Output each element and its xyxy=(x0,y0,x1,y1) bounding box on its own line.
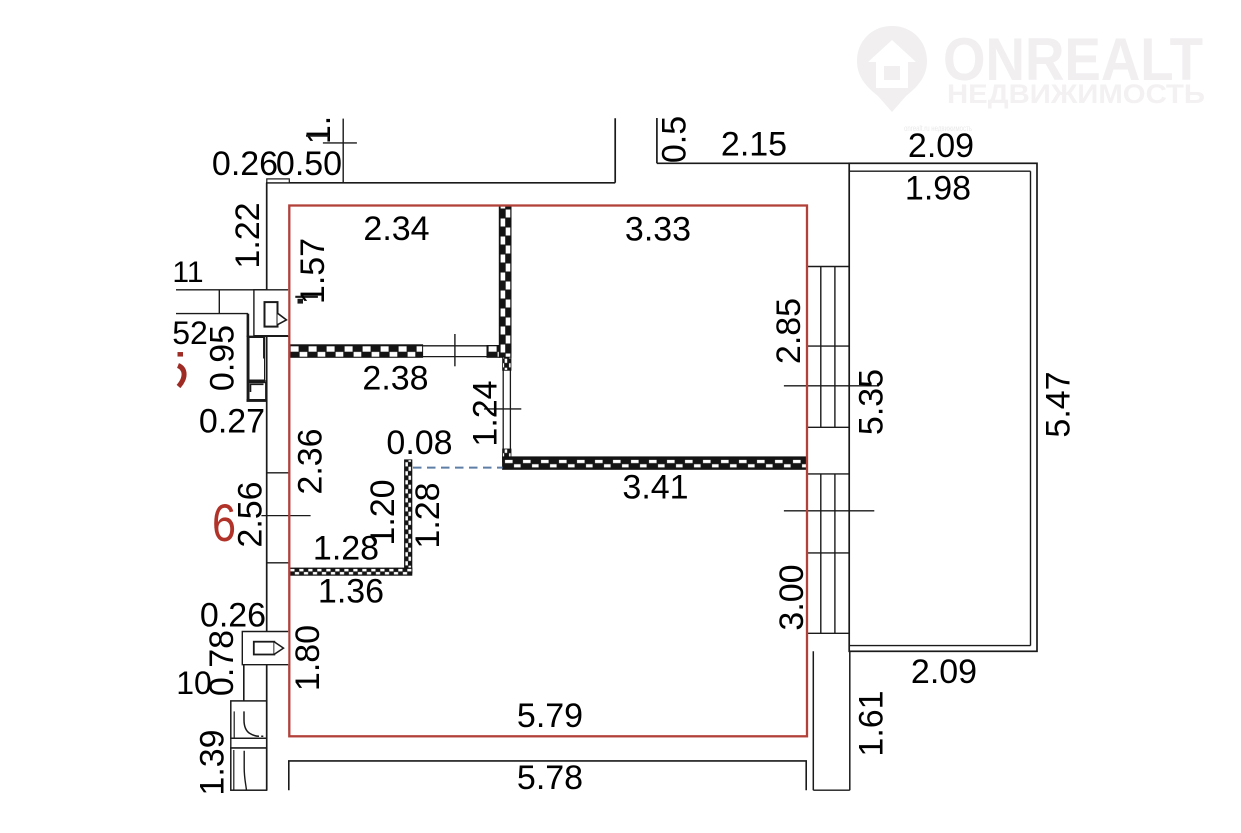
wall top horizontal y=163 xyxy=(657,162,849,164)
parapet notch top-left xyxy=(267,179,290,183)
neighbor fixture rect A xyxy=(249,337,265,380)
jamb cap bottom xyxy=(503,449,511,462)
svg-text:5.47: 5.47 xyxy=(1040,371,1078,437)
wall top-left horizontal xyxy=(266,182,615,184)
dim 1.24 rotated xyxy=(467,380,505,446)
svg-text:0.95: 0.95 xyxy=(204,325,242,391)
door bottom swing triangle xyxy=(274,642,283,654)
apartment boundary red xyxy=(289,206,807,737)
dashed blue line xyxy=(413,467,503,469)
wall 3.41 checkered xyxy=(503,457,807,469)
svg-text:11: 11 xyxy=(172,256,203,289)
svg-text:0.26: 0.26 xyxy=(212,145,278,183)
svg-text:5.78: 5.78 xyxy=(517,759,583,797)
svg-text:2.56: 2.56 xyxy=(232,481,270,547)
svg-text:2.85: 2.85 xyxy=(770,298,808,364)
dim 0.78 rotated xyxy=(203,630,241,696)
door bottom box xyxy=(242,632,288,665)
balcony outer rect xyxy=(849,163,1037,651)
neighbor fixture black band xyxy=(249,380,266,383)
balcony inner bottom xyxy=(849,645,1030,647)
red partial glyph xyxy=(178,354,185,386)
dim 5.35 rotated xyxy=(853,369,891,435)
opening jamb line right x=510.4 xyxy=(509,357,511,462)
svg-text:1.80: 1.80 xyxy=(289,625,327,691)
neighbor wall x=248 thick xyxy=(247,314,250,401)
dim 0.95 rotated xyxy=(204,325,242,391)
fixture box2 xyxy=(231,748,267,790)
svg-text:3.41: 3.41 xyxy=(622,469,688,507)
fixture box1 xyxy=(231,701,267,738)
tick dim 2.85/5.35 xyxy=(784,385,879,387)
dim 0.5 rotated xyxy=(656,116,694,163)
svg-text:0.08: 0.08 xyxy=(386,424,452,462)
dim 1.80 rotated xyxy=(289,625,327,691)
balcony inner right xyxy=(1030,171,1032,645)
wall partition 2.38 checkered xyxy=(289,345,422,358)
svg-text:1.39: 1.39 xyxy=(194,729,232,795)
svg-text:1.98: 1.98 xyxy=(905,170,971,208)
svg-text:НЕДВИЖИМОСТЬ: НЕДВИЖИМОСТЬ xyxy=(947,79,1205,109)
svg-text:2.09: 2.09 xyxy=(911,653,977,691)
window strip verticals right side xyxy=(820,267,822,428)
window2 verticals xyxy=(820,474,822,633)
wall top vertical at x=615 xyxy=(614,118,616,183)
door top box xyxy=(254,290,288,336)
neighbor wall y=290 xyxy=(176,289,267,291)
dim 2.85 rotated xyxy=(770,298,808,364)
watermark house xyxy=(868,40,916,88)
svg-text:1.61: 1.61 xyxy=(853,690,891,756)
svg-text:1.28: 1.28 xyxy=(313,530,379,568)
window1 top xyxy=(807,266,849,268)
svg-text:1.24: 1.24 xyxy=(467,380,505,446)
wall below balcony right xyxy=(849,651,851,790)
window2 divider xyxy=(807,552,849,554)
neighbor fixture rect A inner line xyxy=(263,337,265,358)
dim 1.57 rotated xyxy=(294,238,332,304)
svg-text:1.22: 1.22 xyxy=(229,202,267,268)
wall stub checkered near column xyxy=(487,346,499,358)
svg-text:1.28: 1.28 xyxy=(409,482,447,548)
svg-text:1.36: 1.36 xyxy=(318,573,384,611)
dim 1. rotated xyxy=(300,116,338,144)
dim 3.00 rotated xyxy=(773,564,811,630)
wall 1.36 checkered xyxy=(289,568,412,575)
wall below balcony bottom xyxy=(813,789,850,791)
dim 1.39 rotated xyxy=(194,729,232,795)
svg-text:5.79: 5.79 xyxy=(517,697,583,735)
svg-text:0.50: 0.50 xyxy=(276,145,342,183)
dim line under 1. xyxy=(306,135,329,137)
neighbor fixture notch L xyxy=(251,384,264,392)
svg-text:1.: 1. xyxy=(300,116,338,144)
wall vertical at x=657 xyxy=(656,118,658,163)
wall below balcony left xyxy=(812,651,814,790)
svg-text:2.38: 2.38 xyxy=(362,360,428,398)
svg-text:5.35: 5.35 xyxy=(853,369,891,435)
svg-text:2.09: 2.09 xyxy=(908,127,974,165)
svg-text:1.57: 1.57 xyxy=(294,238,332,304)
wall partition vertical checkered (2.34/3.33) xyxy=(499,206,511,358)
dim 1.20 rotated xyxy=(364,479,402,545)
neighbor fixture shelf line y=336 xyxy=(247,335,289,337)
svg-text:52: 52 xyxy=(172,315,208,351)
tick for dim 1. xyxy=(323,142,357,144)
tick dim 3.00 xyxy=(784,510,874,512)
watermark logo pin xyxy=(857,26,927,112)
neighbor fixture rect B xyxy=(249,383,266,400)
balcony inner top xyxy=(849,170,1030,172)
fixture box1 inner line xyxy=(233,711,235,738)
window1 bottom xyxy=(807,426,849,428)
tick dim 2.38 xyxy=(454,334,456,366)
neighbor wall band y=400 xyxy=(247,399,267,402)
neighbor wall y=313.6 xyxy=(176,313,248,315)
door top leaf xyxy=(265,302,278,327)
window2 bottom xyxy=(807,632,849,634)
fixture box1 curve xyxy=(244,711,263,736)
fixture box2 curve xyxy=(244,751,246,790)
door top swing triangle xyxy=(278,313,287,325)
dim 1.22 rotated xyxy=(229,202,267,268)
svg-text:2.36: 2.36 xyxy=(292,428,330,494)
opening jamb line left x=503 xyxy=(502,357,504,462)
tick left wall y=472.8 xyxy=(267,472,290,474)
svg-text:0.26: 0.26 xyxy=(200,597,266,635)
dim 5.47 rotated xyxy=(1040,371,1078,437)
door opening edge bottom xyxy=(423,356,487,358)
left corridor wall x=267 xyxy=(266,183,268,790)
svg-text:3.00: 3.00 xyxy=(773,564,811,630)
jamb cap top xyxy=(503,357,511,370)
svg-text:2.34: 2.34 xyxy=(363,210,429,248)
svg-text:3.33: 3.33 xyxy=(625,211,691,249)
window2 top xyxy=(807,473,849,475)
svg-text:2.15: 2.15 xyxy=(721,126,787,164)
dim 1.28 rotated xyxy=(409,482,447,548)
svg-text:0.27: 0.27 xyxy=(199,403,265,441)
fixture band xyxy=(231,738,267,748)
dim 2.56 rotated xyxy=(232,481,270,547)
tick dot 1.57 xyxy=(298,299,304,304)
tick dim 1.57 xyxy=(295,296,318,298)
lower neighbor wall 5.78 xyxy=(289,761,806,790)
tick left wall y=562.8 xyxy=(267,562,290,564)
dimension line at x=343 xyxy=(342,119,344,183)
window1 divider xyxy=(807,345,849,347)
door bottom leaf xyxy=(254,642,274,655)
wall small vertical checkered 0.08 xyxy=(405,460,412,573)
fixture box2 inner line xyxy=(233,750,235,790)
svg-text:10: 10 xyxy=(176,665,212,701)
dim 1.61 rotated xyxy=(853,690,891,756)
svg-text:0.5: 0.5 xyxy=(656,116,694,163)
corridor wall below door x=243.8 xyxy=(243,665,245,702)
leader line label 6 xyxy=(261,515,310,517)
door opening edge top xyxy=(423,345,500,347)
neighbor wall x=219 xyxy=(218,290,220,314)
dim 2.36 rotated xyxy=(292,428,330,494)
tick dim 1.24 xyxy=(484,408,521,410)
